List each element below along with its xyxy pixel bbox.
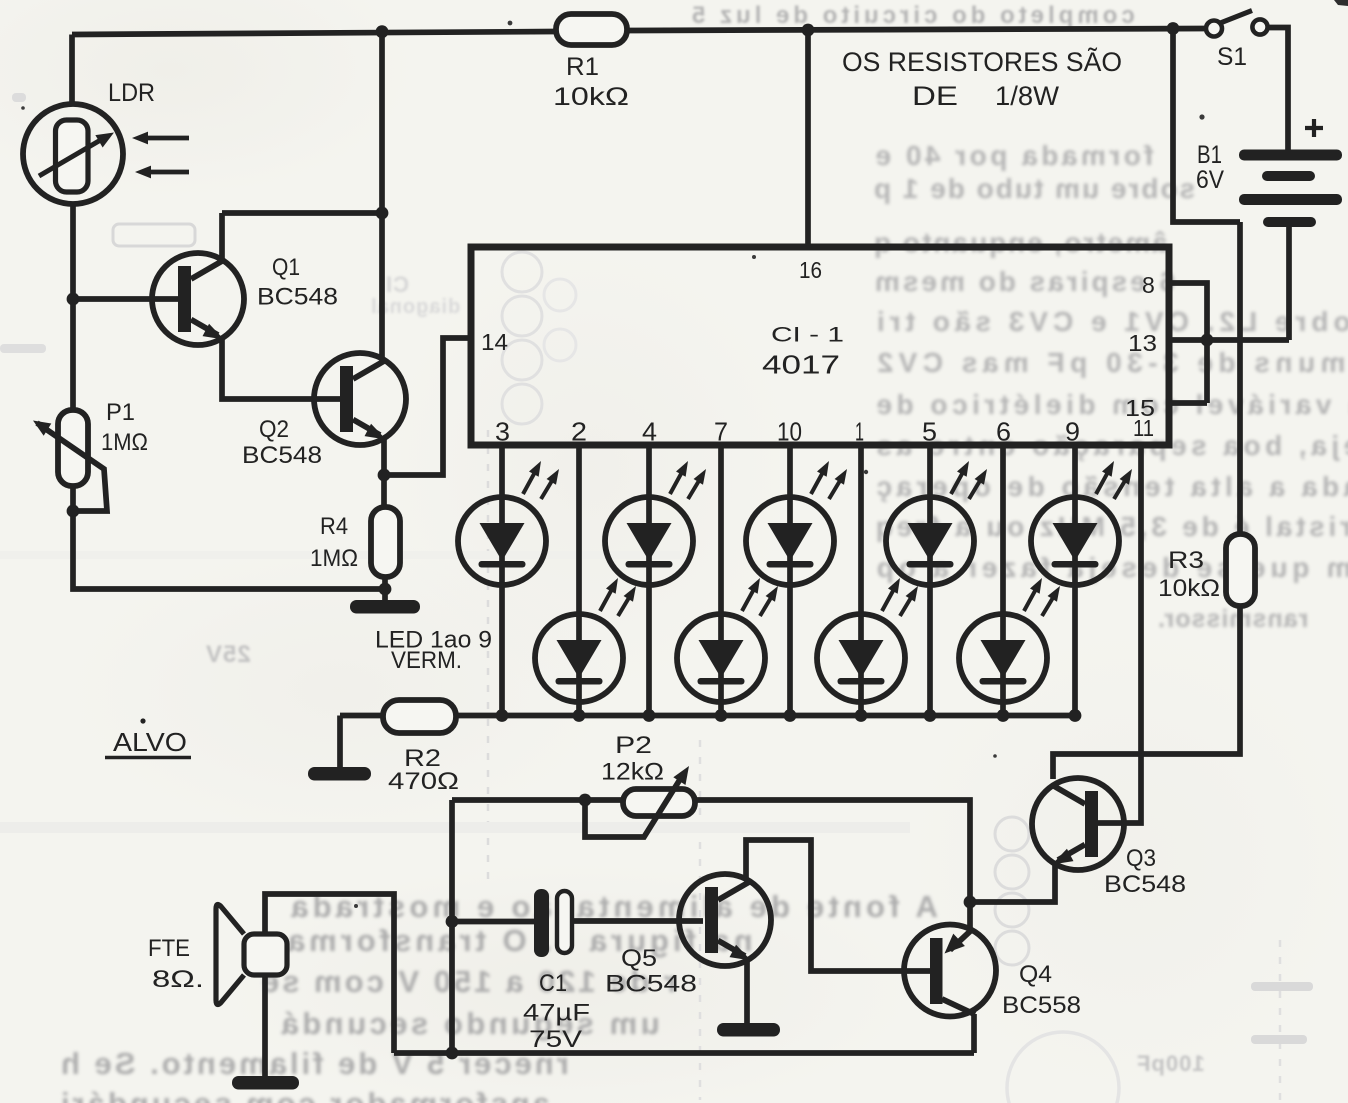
svg-text:11: 11 (1133, 415, 1154, 441)
svg-text:6V: 6V (1196, 166, 1224, 194)
svg-text:OS RESISTORES SÃO: OS RESISTORES SÃO (842, 46, 1122, 77)
svg-text:S1: S1 (1217, 43, 1247, 71)
svg-text:1MΩ: 1MΩ (310, 545, 358, 572)
svg-text:BC548: BC548 (242, 442, 322, 469)
svg-text:75V: 75V (529, 1026, 582, 1053)
svg-text:BC548: BC548 (257, 284, 338, 311)
svg-text:10kΩ: 10kΩ (553, 83, 629, 111)
svg-text:Q1: Q1 (272, 254, 300, 281)
svg-text:BC558: BC558 (1002, 992, 1081, 1019)
svg-text:6: 6 (996, 417, 1011, 447)
svg-text:VERM.: VERM. (391, 647, 462, 674)
svg-text:P2: P2 (615, 732, 652, 759)
svg-text:ALVO: ALVO (113, 727, 187, 757)
svg-text:CI - 1: CI - 1 (771, 324, 844, 347)
svg-text:BC548: BC548 (1104, 871, 1186, 898)
svg-text:1MΩ: 1MΩ (101, 429, 148, 456)
svg-text:B1: B1 (1197, 141, 1222, 169)
svg-text:13: 13 (1128, 330, 1157, 356)
svg-text:9: 9 (1065, 417, 1080, 447)
svg-text:5: 5 (922, 417, 937, 447)
svg-text:4017: 4017 (762, 350, 840, 380)
svg-text:Q2: Q2 (259, 416, 289, 443)
svg-text:R3: R3 (1168, 547, 1204, 574)
svg-text:7: 7 (714, 417, 728, 447)
svg-text:LDR: LDR (108, 79, 155, 107)
svg-text:2: 2 (571, 417, 587, 447)
svg-text:Q5: Q5 (621, 945, 657, 972)
svg-text:FTE: FTE (148, 935, 190, 962)
svg-text:3: 3 (495, 417, 510, 447)
svg-text:Q4: Q4 (1019, 961, 1052, 988)
svg-text:8Ω.: 8Ω. (152, 966, 204, 993)
svg-text:4: 4 (642, 417, 657, 447)
svg-text:BC548: BC548 (605, 971, 697, 998)
svg-text:10kΩ: 10kΩ (1158, 575, 1220, 602)
svg-text:16: 16 (799, 257, 822, 283)
svg-text:Q3: Q3 (1126, 845, 1156, 872)
svg-text:R1: R1 (566, 53, 599, 81)
svg-text:P1: P1 (106, 399, 135, 426)
svg-text:1: 1 (855, 417, 864, 447)
svg-text:DE: DE (912, 81, 958, 111)
svg-text:C1: C1 (539, 970, 567, 997)
svg-text:10: 10 (777, 417, 802, 447)
svg-text:1/8W: 1/8W (995, 81, 1059, 111)
svg-text:14: 14 (481, 329, 508, 355)
svg-text:470Ω: 470Ω (388, 768, 459, 795)
svg-text:12kΩ: 12kΩ (601, 759, 664, 786)
svg-text:8: 8 (1142, 272, 1155, 298)
svg-text:47µF: 47µF (523, 1000, 590, 1027)
svg-text:R4: R4 (320, 513, 348, 540)
